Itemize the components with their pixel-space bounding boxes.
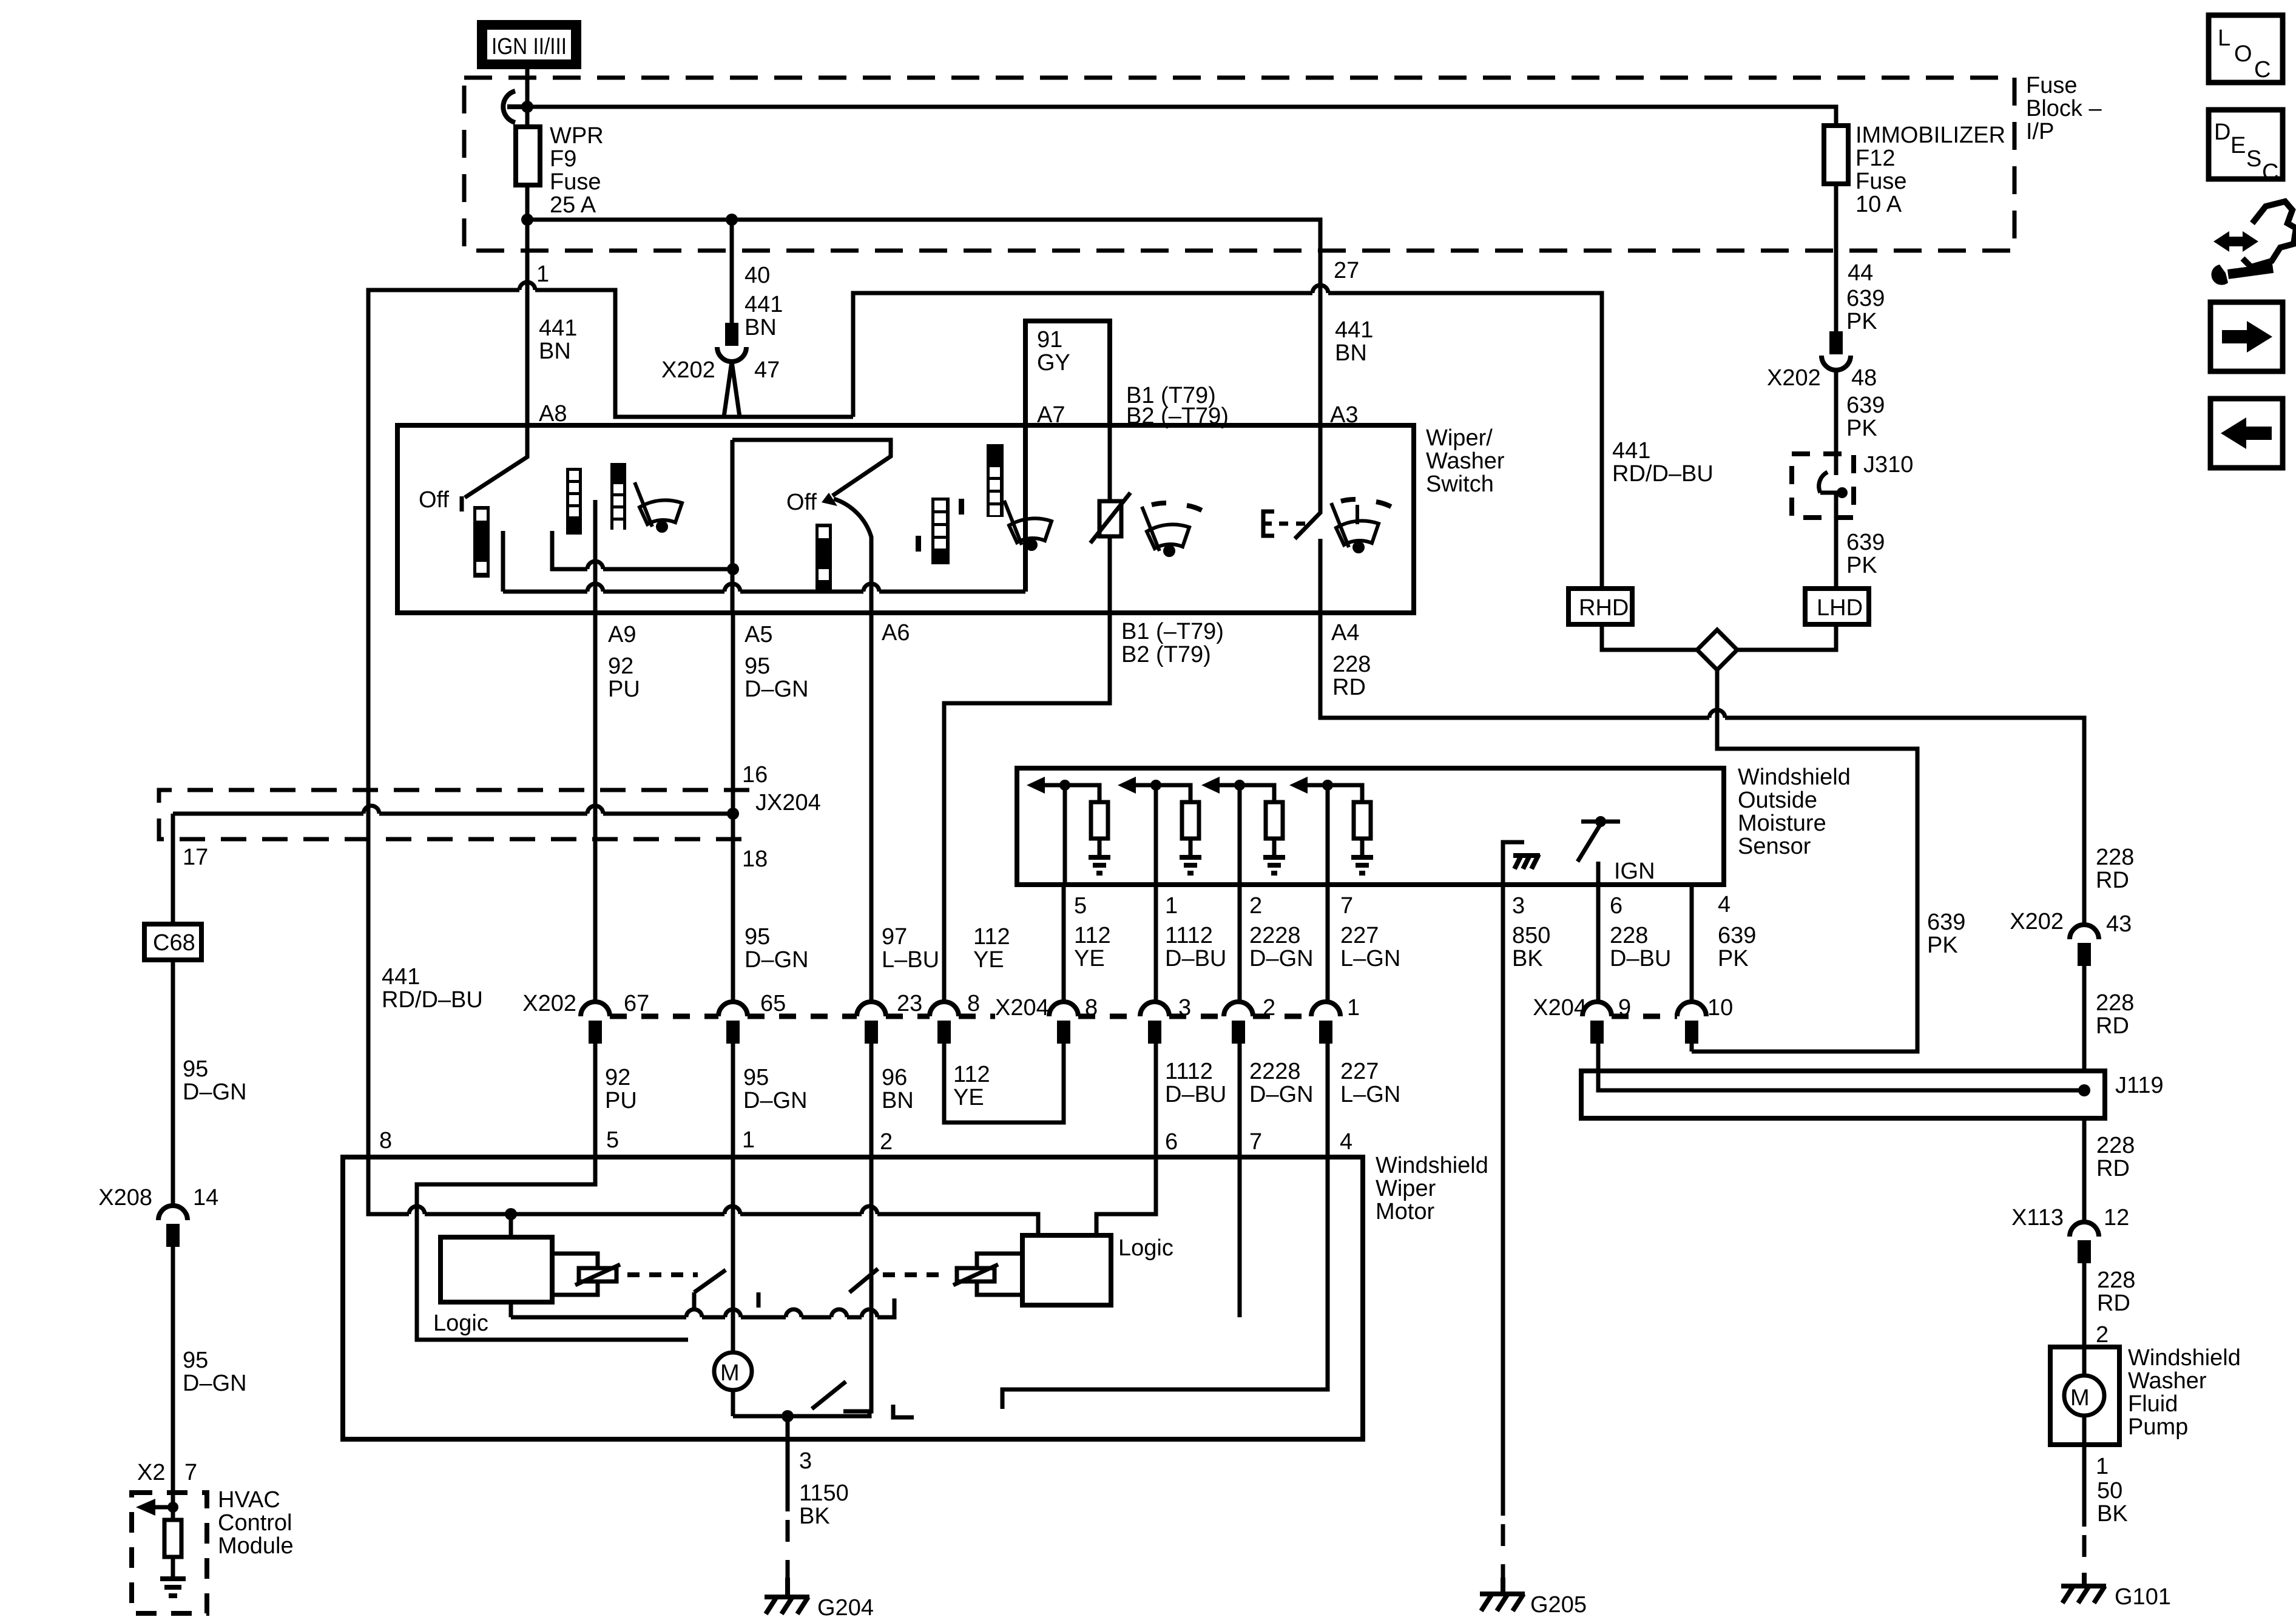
svg-text:4: 4 — [1718, 892, 1730, 917]
svg-text:D–BU: D–BU — [1165, 1082, 1226, 1107]
svg-text:X202: X202 — [1767, 365, 1821, 391]
logic box 2 — [1022, 1235, 1111, 1305]
wire diamond down to 639 PK loop — [1692, 670, 1917, 1052]
motor M circle — [714, 1352, 752, 1416]
svg-text:17: 17 — [183, 845, 208, 870]
svg-text:95: 95 — [183, 1056, 208, 1082]
junction J310 dashed box — [1792, 454, 1854, 518]
91 GY cable box — [1025, 321, 1110, 592]
svg-text:C68: C68 — [153, 930, 195, 956]
svg-text:639: 639 — [1846, 530, 1885, 555]
wire top bus to F12 — [527, 107, 1836, 126]
wire IGN to fuse block — [525, 69, 530, 127]
svg-text:Logic: Logic — [1118, 1235, 1173, 1261]
sensor cell 2 — [1118, 777, 1201, 885]
svg-text:228: 228 — [1610, 923, 1648, 948]
svg-text:14: 14 — [193, 1185, 218, 1210]
node RHD — [1568, 589, 1632, 624]
svg-text:47: 47 — [754, 357, 780, 383]
connector X202-47 — [717, 325, 746, 417]
wire pump to G101 — [2082, 1445, 2087, 1584]
power node IGN II/III — [477, 20, 581, 69]
svg-text:40: 40 — [745, 263, 770, 288]
svg-text:228: 228 — [2096, 990, 2134, 1016]
svg-text:RD: RD — [2096, 1013, 2129, 1039]
svg-text:PK: PK — [1927, 933, 1958, 958]
svg-text:3: 3 — [1178, 995, 1191, 1021]
svg-text:27: 27 — [1334, 258, 1359, 283]
svg-text:Block –: Block – — [2026, 96, 2102, 121]
junction block JX204 dashed box — [159, 790, 749, 839]
svg-text:Switch: Switch — [1426, 471, 1494, 497]
svg-text:RHD: RHD — [1579, 595, 1629, 621]
svg-text:Moisture: Moisture — [1738, 811, 1826, 836]
svg-text:639: 639 — [1846, 286, 1885, 311]
svg-text:BN: BN — [745, 315, 777, 340]
svg-text:D–BU: D–BU — [1610, 946, 1671, 971]
wire pin3 below box — [786, 1439, 790, 1578]
svg-text:B2 (–T79): B2 (–T79) — [1126, 403, 1229, 429]
svg-text:10 A: 10 A — [1855, 192, 1902, 217]
svg-text:441: 441 — [539, 316, 577, 341]
svg-text:1112: 1112 — [1165, 1059, 1213, 1084]
svg-text:2: 2 — [2096, 1322, 2109, 1348]
svg-text:Module: Module — [218, 1533, 294, 1559]
icon DESC box — [2209, 110, 2283, 185]
sensor cell 3 — [1201, 777, 1285, 885]
svg-text:L–GN: L–GN — [1340, 1082, 1400, 1107]
svg-text:Washer: Washer — [2128, 1368, 2207, 1394]
svg-text:D–GN: D–GN — [1249, 1082, 1314, 1107]
wiper icon 3 (with dashes) — [1142, 503, 1205, 555]
switch 1 detent bar — [473, 506, 490, 578]
svg-text:Control: Control — [218, 1510, 292, 1536]
icon service tool (arrow + wrench) — [2211, 0, 2296, 285]
svg-text:67: 67 — [624, 991, 649, 1016]
svg-text:7: 7 — [184, 1460, 197, 1485]
switch 2 structure — [732, 440, 891, 613]
wire JX204 pin17 down to C68 — [171, 814, 175, 924]
svg-text:Pump: Pump — [2128, 1414, 2188, 1440]
wire A6 to X202-23 — [869, 613, 874, 1004]
switch 1 contact stubs — [503, 531, 733, 592]
svg-text:E: E — [2230, 133, 2246, 158]
sensor internal chassis ground (pin 3) — [1503, 842, 1540, 885]
svg-text:2: 2 — [1263, 995, 1275, 1021]
svg-text:LHD: LHD — [1817, 595, 1863, 621]
merge diamond — [1602, 624, 1917, 1052]
windshield washer fluid pump — [2050, 1347, 2119, 1445]
svg-text:95: 95 — [183, 1348, 208, 1373]
svg-text:639: 639 — [1846, 393, 1885, 418]
relay coil 1 — [552, 1254, 698, 1295]
svg-text:96: 96 — [882, 1065, 907, 1090]
svg-text:2228: 2228 — [1249, 1059, 1301, 1084]
svg-text:Motor: Motor — [1376, 1199, 1434, 1224]
svg-text:RD/D–BU: RD/D–BU — [382, 987, 483, 1013]
svg-text:L: L — [2218, 25, 2230, 51]
svg-text:BN: BN — [882, 1088, 914, 1113]
svg-text:5: 5 — [1074, 893, 1087, 919]
sensor cell 1 — [1027, 777, 1110, 885]
svg-text:639: 639 — [1718, 923, 1756, 948]
svg-text:4: 4 — [1340, 1129, 1352, 1155]
svg-text:1: 1 — [1347, 995, 1360, 1021]
svg-text:65: 65 — [760, 991, 786, 1016]
svg-text:95: 95 — [743, 1065, 769, 1090]
junction dot at A5 head — [727, 563, 739, 575]
svg-text:J310: J310 — [1863, 452, 1913, 478]
switch 2 comb 3 — [931, 498, 950, 564]
wire 40 drop to X202-47 — [730, 220, 734, 325]
switch 2 tick marks — [916, 536, 921, 552]
icon LOC box — [2209, 15, 2283, 83]
clip symbol at F9 — [503, 91, 527, 123]
svg-text:3: 3 — [1512, 893, 1525, 919]
svg-text:112: 112 — [1074, 923, 1111, 948]
junction dot logic1 feed — [505, 1208, 517, 1220]
svg-text:6: 6 — [1165, 1129, 1178, 1155]
svg-text:1150: 1150 — [799, 1480, 849, 1506]
ground G205 — [1480, 1578, 1525, 1611]
svg-text:1: 1 — [536, 262, 549, 287]
svg-text:G204: G204 — [817, 1595, 874, 1617]
svg-text:L–BU: L–BU — [882, 947, 939, 973]
svg-text:YE: YE — [973, 947, 1004, 973]
svg-text:YE: YE — [1074, 946, 1105, 971]
svg-text:A5: A5 — [745, 622, 772, 647]
internal bus 2 — [511, 1298, 894, 1317]
svg-text:BK: BK — [799, 1504, 830, 1529]
wire pin6 to logic2 — [1096, 1157, 1156, 1235]
connector X202-43 — [2070, 925, 2099, 964]
wire sensor pin5 to X204 — [1062, 885, 1066, 1004]
junction dot — [521, 101, 533, 113]
svg-text:F12: F12 — [1855, 146, 1895, 171]
logic box 1 — [441, 1214, 552, 1317]
svg-text:Wiper: Wiper — [1376, 1176, 1436, 1201]
svg-text:YE: YE — [953, 1085, 984, 1110]
wire pin7 into box — [1238, 1157, 1242, 1317]
svg-text:D–GN: D–GN — [745, 947, 809, 973]
svg-text:18: 18 — [742, 846, 768, 872]
svg-text:Off: Off — [419, 487, 449, 513]
svg-text:IGN: IGN — [1614, 859, 1655, 884]
svg-text:X204: X204 — [1533, 995, 1587, 1021]
svg-text:RD: RD — [1332, 675, 1366, 700]
svg-text:8: 8 — [1085, 995, 1098, 1021]
svg-text:1112: 1112 — [1165, 923, 1213, 948]
switch 1 comb 1 — [566, 468, 582, 535]
svg-text:227: 227 — [1340, 1059, 1379, 1084]
wires below X202 row into motor box — [593, 1041, 598, 1157]
svg-text:M: M — [720, 1360, 740, 1386]
svg-text:9: 9 — [1618, 995, 1631, 1021]
HVAC internal arrow + resistor + ground — [136, 1493, 186, 1596]
splice J119 box — [1581, 1071, 2105, 1118]
svg-text:A9: A9 — [608, 622, 636, 647]
svg-text:95: 95 — [745, 924, 770, 950]
svg-text:639: 639 — [1927, 910, 1965, 935]
svg-text:10: 10 — [1707, 995, 1733, 1021]
svg-text:23: 23 — [897, 991, 922, 1016]
svg-text:PK: PK — [1846, 416, 1877, 441]
svg-text:95: 95 — [745, 653, 770, 679]
svg-text:RD: RD — [2097, 1291, 2130, 1316]
svg-text:X208: X208 — [98, 1185, 152, 1210]
svg-text:Washer: Washer — [1426, 448, 1505, 474]
svg-text:6: 6 — [1610, 893, 1622, 919]
svg-text:GY: GY — [1037, 350, 1070, 376]
svg-text:JX204: JX204 — [755, 790, 821, 815]
svg-text:D–GN: D–GN — [183, 1371, 247, 1396]
internal bus of switch box — [503, 561, 1025, 592]
svg-text:92: 92 — [608, 653, 633, 679]
svg-text:228: 228 — [2096, 1133, 2135, 1158]
svg-text:BK: BK — [2097, 1501, 2128, 1527]
svg-text:48: 48 — [1851, 365, 1877, 391]
wire 441 branch right — [853, 285, 1602, 589]
wire mid bus 441 to pin 27 — [527, 220, 1320, 425]
svg-text:7: 7 — [1340, 893, 1353, 919]
svg-text:Windshield: Windshield — [1376, 1153, 1488, 1178]
breaker symbol inside J310 — [1819, 454, 1845, 518]
svg-text:Logic: Logic — [433, 1311, 488, 1336]
svg-text:X202: X202 — [661, 357, 715, 383]
svg-text:X113: X113 — [2011, 1205, 2064, 1230]
JX204 internal bus — [173, 806, 733, 924]
wire A4 228 RD to right rail — [1320, 613, 2084, 925]
svg-text:D–GN: D–GN — [743, 1088, 808, 1113]
svg-text:Fuse: Fuse — [2026, 73, 2077, 98]
svg-text:228: 228 — [2097, 1268, 2135, 1293]
node LHD — [1805, 589, 1869, 624]
svg-text:F9: F9 — [550, 146, 576, 172]
svg-text:91: 91 — [1037, 327, 1062, 353]
svg-text:PK: PK — [1846, 553, 1877, 578]
svg-text:X202: X202 — [2010, 909, 2064, 934]
connector X113-12 — [2070, 1222, 2099, 1261]
svg-text:C: C — [2254, 57, 2271, 83]
svg-text:92: 92 — [605, 1065, 630, 1090]
wire X204-2 to motor pin 7 — [1238, 1041, 1242, 1157]
svg-text:8: 8 — [379, 1128, 392, 1153]
svg-text:7: 7 — [1249, 1129, 1262, 1155]
switch 1 lever (Off) — [462, 425, 527, 511]
connector C68 — [144, 924, 201, 960]
fuse F12 wire — [1824, 126, 1848, 184]
svg-text:RD: RD — [2096, 868, 2129, 893]
svg-text:A4: A4 — [1331, 620, 1359, 646]
wire pin5 jog — [417, 1157, 688, 1340]
svg-text:D–GN: D–GN — [183, 1079, 247, 1105]
svg-text:HVAC: HVAC — [218, 1487, 280, 1513]
svg-text:IMMOBILIZER: IMMOBILIZER — [1855, 123, 2005, 148]
svg-text:X2: X2 — [137, 1460, 165, 1485]
relay coil 2 — [849, 1254, 1022, 1295]
svg-text:I/P: I/P — [2026, 119, 2054, 144]
svg-text:441: 441 — [745, 292, 783, 317]
switch 2 comb 4 — [987, 444, 1004, 517]
sensor internal switch (pin 6) — [1578, 822, 1620, 885]
svg-text:PK: PK — [1846, 309, 1877, 334]
svg-text:Windshield: Windshield — [2128, 1345, 2241, 1371]
svg-text:D: D — [2214, 120, 2230, 145]
svg-text:BK: BK — [1512, 946, 1543, 971]
svg-text:228: 228 — [2096, 845, 2134, 870]
windshield outside moisture sensor box — [1017, 768, 1724, 885]
switch 2 detent bar — [815, 524, 832, 590]
svg-text:5: 5 — [606, 1127, 619, 1153]
connector X208-14 — [158, 1206, 187, 1244]
svg-text:BN: BN — [539, 339, 571, 364]
wire A9 to X202-67 — [593, 613, 598, 1004]
svg-text:228: 228 — [1332, 652, 1371, 677]
svg-text:112: 112 — [973, 924, 1010, 950]
junction dot J119 — [2078, 1084, 2090, 1096]
svg-text:227: 227 — [1340, 923, 1379, 948]
svg-text:D–GN: D–GN — [1249, 946, 1314, 971]
svg-text:8: 8 — [967, 991, 980, 1016]
wiper motor box — [343, 1157, 1363, 1439]
ground G204 — [765, 1578, 809, 1614]
junction dot — [521, 214, 533, 226]
wire 850 BK dashed to G205 — [1501, 1524, 1505, 1578]
svg-text:Fuse: Fuse — [1855, 169, 1906, 194]
svg-text:B1 (–T79): B1 (–T79) — [1121, 619, 1224, 644]
svg-text:Off: Off — [786, 490, 817, 515]
svg-text:S: S — [2246, 146, 2261, 172]
svg-text:Fuse: Fuse — [550, 169, 601, 195]
intermittent switch symbol E-- — [1263, 425, 1320, 613]
svg-text:M: M — [2070, 1385, 2090, 1411]
svg-text:PU: PU — [608, 677, 640, 702]
svg-text:IGN II/III: IGN II/III — [491, 34, 567, 59]
svg-text:A3: A3 — [1330, 402, 1358, 428]
connector row X202/X204 — [581, 1002, 1706, 1041]
svg-text:3: 3 — [799, 1448, 812, 1474]
svg-text:1: 1 — [1165, 893, 1178, 919]
svg-text:441: 441 — [1335, 317, 1373, 343]
svg-text:112: 112 — [953, 1062, 990, 1087]
wire pin8 441 rail into box — [368, 1156, 1328, 1411]
svg-text:RD: RD — [2096, 1156, 2130, 1181]
svg-text:2: 2 — [880, 1129, 893, 1155]
svg-text:1: 1 — [742, 1127, 755, 1153]
wire pin4 into box — [1002, 1157, 1328, 1409]
rheostat on B1/B2 wire — [1090, 425, 1130, 613]
sensor cell 4 — [1289, 777, 1373, 885]
wire A9 inside box — [593, 500, 598, 613]
connector X202-48 — [1822, 334, 1851, 370]
wiper icon 4 (intermittent) — [1331, 499, 1394, 552]
svg-text:PK: PK — [1718, 946, 1749, 971]
svg-text:1: 1 — [2096, 1454, 2109, 1479]
svg-text:J119: J119 — [2115, 1073, 2164, 1098]
icon arrow left box — [2210, 399, 2283, 468]
svg-text:C: C — [2262, 160, 2278, 185]
icon arrow right box — [2210, 302, 2283, 371]
wiper/washer switch box — [397, 425, 1414, 613]
fuse block I/P dashed box — [464, 78, 2014, 251]
connector dashed links — [610, 1014, 995, 1019]
svg-text:A7: A7 — [1037, 402, 1065, 428]
wire X204-9 to J119 — [1598, 1041, 2084, 1090]
svg-text:441: 441 — [1612, 438, 1650, 464]
wire A5 to X202-65 — [731, 613, 735, 1004]
sensor pin stubs below — [1156, 885, 1692, 1516]
svg-text:L–GN: L–GN — [1340, 946, 1400, 971]
svg-text:Fluid: Fluid — [2128, 1391, 2178, 1417]
svg-text:50: 50 — [2097, 1478, 2122, 1504]
wire X202-48 to J310 — [1834, 370, 1838, 454]
svg-text:PU: PU — [605, 1088, 637, 1113]
wire X204-1 to motor pin 4 — [1326, 1041, 1330, 1157]
wire 441 branch left — [368, 282, 853, 1156]
svg-text:G205: G205 — [1530, 1592, 1587, 1617]
svg-text:B2 (T79): B2 (T79) — [1121, 642, 1211, 667]
svg-text:25 A: 25 A — [550, 192, 596, 218]
wire X204-3 to motor pin 6 — [1154, 1041, 1158, 1157]
HVAC control module dashed box — [132, 1493, 207, 1613]
svg-text:X202: X202 — [522, 991, 576, 1016]
svg-text:12: 12 — [2104, 1205, 2129, 1230]
fuse F9 — [516, 127, 540, 185]
wire X204-10 up from sensor pin4 — [1690, 1041, 1694, 1052]
svg-text:850: 850 — [1512, 923, 1550, 948]
wire pin2 into box — [843, 1157, 871, 1411]
wire B1/B2 to X204-8 — [944, 613, 1110, 1004]
svg-text:BN: BN — [1335, 340, 1367, 366]
junction dot — [726, 214, 738, 226]
svg-text:441: 441 — [382, 964, 420, 990]
wiper icon 1 — [635, 482, 682, 531]
svg-text:97: 97 — [882, 924, 907, 950]
svg-text:RD/D–BU: RD/D–BU — [1612, 461, 1714, 487]
wire C68 to X208 — [171, 960, 175, 1206]
relay contact 1 — [694, 1270, 758, 1352]
svg-text:A6: A6 — [882, 620, 910, 646]
wiper icon 2 — [1004, 501, 1052, 549]
svg-text:Wiper/: Wiper/ — [1426, 425, 1493, 451]
motor bottom wire to pin3 — [733, 1411, 869, 1439]
svg-text:G101: G101 — [2115, 1584, 2171, 1610]
relay contact 2 — [812, 1382, 914, 1417]
wire 112 YE U-link X204-8 to sensor pin 5 — [944, 1041, 1064, 1122]
svg-text:A8: A8 — [539, 401, 567, 427]
svg-text:WPR: WPR — [550, 123, 604, 149]
svg-text:X204: X204 — [995, 995, 1049, 1021]
junction dot JX204 — [727, 808, 739, 820]
wire pin1 into box — [731, 1157, 735, 1270]
svg-text:43: 43 — [2106, 911, 2132, 937]
svg-text:D–BU: D–BU — [1165, 946, 1226, 971]
svg-text:D–GN: D–GN — [745, 677, 809, 702]
svg-text:Outside: Outside — [1738, 788, 1817, 813]
switch 1 comb 2 — [610, 463, 626, 530]
wire J310 to LHD — [1834, 518, 1838, 589]
svg-text:O: O — [2234, 41, 2252, 67]
ground G101 — [2061, 1573, 2106, 1603]
svg-text:16: 16 — [742, 762, 768, 788]
svg-text:44: 44 — [1848, 260, 1873, 286]
svg-text:Windshield: Windshield — [1738, 765, 1851, 790]
svg-text:2: 2 — [1249, 893, 1262, 919]
svg-text:2228: 2228 — [1249, 923, 1301, 948]
svg-text:Sensor: Sensor — [1738, 834, 1811, 859]
